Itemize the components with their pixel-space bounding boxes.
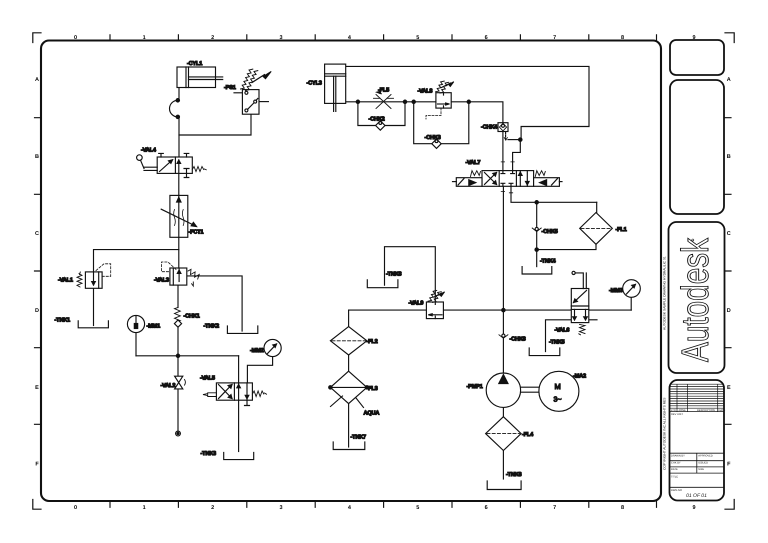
wire CYL1 to rotary joint	[178, 88, 180, 101]
check valve CHK6	[499, 334, 508, 338]
svg-text:-VAL7: -VAL7	[466, 160, 481, 166]
tank TNK8	[487, 481, 521, 490]
svg-text:M: M	[555, 382, 561, 391]
corner mark top-right	[725, 33, 734, 43]
node	[535, 248, 538, 251]
check valve CHK5	[532, 227, 541, 231]
wire FL1 return	[537, 244, 596, 249]
node	[535, 201, 538, 204]
svg-text:TITLE: TITLE	[671, 475, 678, 478]
valve VAL9	[426, 302, 443, 319]
svg-text:-FL4: -FL4	[522, 432, 534, 438]
svg-text:-VAL8: -VAL8	[418, 89, 433, 95]
wire PS1 branch	[179, 114, 251, 135]
spring arrow VAL9	[428, 291, 445, 303]
node	[176, 115, 179, 118]
lever VAL4	[137, 155, 158, 171]
valve VAL5	[216, 383, 252, 400]
tank TNK5	[529, 348, 560, 356]
wire VAL7 P to pump	[502, 186, 504, 373]
tank TNK3	[224, 453, 254, 460]
wire FL2 to FL3	[348, 355, 350, 371]
filter FL2	[330, 327, 367, 355]
svg-text:-CYL1: -CYL1	[187, 61, 202, 67]
wire VAL1 to TNK1	[93, 288, 95, 325]
svg-text:ZONE: ZONE	[679, 409, 686, 412]
wire VAL5 to TNK3	[238, 400, 240, 451]
spring right VAL7	[535, 171, 545, 177]
svg-text:SIZE: SIZE	[698, 468, 704, 471]
svg-text:-TNK1: -TNK1	[55, 318, 71, 324]
wire MM2 to VAL5	[247, 357, 272, 383]
svg-text:-TNK6: -TNK6	[386, 272, 402, 278]
coupling shaft	[521, 387, 539, 392]
svg-text:-MA2: -MA2	[573, 374, 586, 380]
svg-text:-VAL5: -VAL5	[200, 376, 215, 382]
revision table header text	[671, 409, 725, 416]
pump PMP1	[486, 373, 520, 407]
pilot dashes VAL8	[426, 108, 441, 119]
VAL5 blocked port	[245, 400, 250, 405]
spring left VAL7	[471, 171, 481, 177]
relief valve VAL1	[85, 272, 102, 288]
node	[356, 100, 359, 103]
svg-text:D: D	[35, 308, 39, 314]
wire FL3 to TNK7	[348, 404, 350, 447]
svg-text:8: 8	[621, 35, 624, 41]
cylinder CYL3	[325, 64, 346, 111]
svg-text:AUTODESK SAMPLE DRAWING HYDRAU: AUTODESK SAMPLE DRAWING HYDRAULIC 01	[663, 256, 667, 330]
flow control FCT1	[161, 195, 196, 237]
filter FL1	[580, 213, 613, 245]
wire CHK4 to VAL7 port A	[502, 132, 504, 170]
svg-text:DRAWN BY: DRAWN BY	[671, 454, 685, 457]
svg-text:AQUA: AQUA	[364, 411, 380, 417]
svg-text:-FL3: -FL3	[367, 386, 378, 392]
grid numbers bottom	[74, 505, 696, 511]
right column ticks	[725, 118, 732, 425]
check valve CHK1	[174, 308, 181, 328]
adjust arrow PS1	[241, 69, 272, 90]
RIGHT COLUMN	[669, 40, 725, 501]
wire pilot node link	[508, 139, 522, 141]
svg-text:B: B	[35, 154, 39, 160]
svg-text:-TNK7: -TNK7	[351, 435, 367, 441]
title block box	[670, 380, 725, 501]
svg-text:COPYRIGHT AUTODESK INC ALL RIG: COPYRIGHT AUTODESK INC ALL RIGHTS RES	[663, 397, 667, 470]
pilot dashes CHK4	[505, 133, 507, 140]
svg-text:-FL2: -FL2	[367, 339, 378, 345]
valve VAL4	[157, 153, 192, 177]
svg-text:APPROVED: APPROVED	[698, 454, 713, 457]
svg-text:-CHK4: -CHK4	[481, 125, 498, 131]
node	[502, 308, 505, 311]
spring VAL3	[188, 269, 199, 286]
svg-text:1: 1	[143, 35, 146, 41]
svg-text:-CHK6: -CHK6	[510, 337, 526, 343]
wire branch to VAL1	[94, 250, 179, 272]
spring VAL6	[579, 324, 585, 334]
svg-text:-FL5: -FL5	[378, 88, 389, 94]
tank TNK2	[227, 326, 257, 333]
wire CYL3 head line long	[346, 66, 589, 139]
wire bus to VAL5	[238, 356, 240, 383]
copyright micro text vertical	[663, 256, 667, 470]
wire MM3 riser	[630, 297, 632, 310]
relief valve VAL3	[170, 268, 187, 285]
wire bypass branch 1	[358, 102, 405, 126]
svg-text:A: A	[727, 77, 731, 83]
svg-text:DESCRIPTION: DESCRIPTION	[697, 409, 715, 412]
solenoid right VAL7	[534, 178, 562, 187]
svg-text:-VAL9: -VAL9	[409, 301, 424, 307]
svg-text:-CHK3: -CHK3	[425, 135, 441, 141]
node	[412, 100, 415, 103]
wire MM1 drop	[135, 333, 137, 356]
wire VAL3 to CHK1	[177, 285, 179, 307]
svg-text:A: A	[35, 77, 39, 83]
title box 1	[670, 40, 724, 75]
gauge MM2	[264, 339, 281, 356]
svg-text:-VAL4: -VAL4	[141, 148, 157, 154]
wire bypass branch 2	[414, 102, 469, 144]
spring VAL4	[192, 167, 206, 172]
spring VAL1	[77, 272, 82, 287]
svg-text:2: 2	[211, 505, 214, 511]
svg-text:-TNK4: -TNK4	[540, 259, 557, 265]
wire CHK5 drop	[536, 202, 538, 249]
svg-text:-CHK5: -CHK5	[542, 229, 558, 235]
wire FL4 to TNK8	[502, 451, 504, 480]
svg-text:6: 6	[485, 505, 488, 511]
main border	[41, 41, 661, 502]
wire to TNK4	[536, 250, 538, 267]
wire pressure header	[349, 309, 632, 311]
grid numbers top	[74, 35, 696, 41]
title box 2	[670, 80, 724, 214]
pilot arrow	[504, 138, 507, 141]
svg-text:-MM3: -MM3	[609, 288, 623, 294]
svg-text:-MM1: -MM1	[147, 324, 161, 330]
shutoff valve VAL2	[175, 376, 186, 389]
svg-text:E: E	[35, 385, 39, 391]
svg-text:0: 0	[74, 505, 77, 511]
corner mark bottom-right	[725, 500, 734, 510]
svg-text:LTR: LTR	[671, 409, 676, 412]
wire FL2 riser	[348, 310, 350, 327]
VAL5 push actuator	[203, 393, 216, 397]
VAL6 stem	[575, 273, 586, 289]
svg-text:D: D	[727, 308, 731, 314]
wire VAL7 T to tank line	[511, 186, 597, 202]
rotary joint arc	[170, 100, 178, 117]
wire VAL4 to FCT1	[178, 173, 180, 195]
pressure switch PS1	[242, 90, 259, 115]
node dead end	[176, 431, 181, 436]
svg-text:-VAL6: -VAL6	[555, 328, 570, 334]
spring VAL5	[252, 391, 266, 397]
svg-text:-MM2: -MM2	[250, 348, 264, 354]
svg-text:-VAL1: -VAL1	[58, 278, 73, 284]
svg-text:-TNK8: -TNK8	[506, 472, 522, 478]
svg-text:-FL1: -FL1	[616, 227, 627, 233]
wire VAL6 to TNK5	[546, 320, 572, 352]
wire FCT1 to VAL3	[178, 237, 180, 268]
motor MA2	[539, 371, 579, 411]
svg-text:7: 7	[553, 35, 556, 41]
svg-text:8: 8	[621, 505, 624, 511]
svg-text:DATE: DATE	[671, 468, 678, 471]
wire PS1 left lead	[234, 92, 242, 94]
svg-text:-CHK2: -CHK2	[369, 117, 385, 123]
svg-text:E: E	[727, 385, 731, 391]
svg-text:5: 5	[416, 505, 419, 511]
reducing valve VAL8	[436, 93, 451, 108]
svg-text:-FCT1: -FCT1	[189, 230, 204, 236]
gauge MM1	[127, 315, 144, 332]
solenoid left VAL7	[453, 178, 483, 187]
svg-text:DWG NO: DWG NO	[671, 489, 682, 492]
spring arrow VAL8	[436, 81, 454, 93]
svg-text:3: 3	[279, 35, 282, 41]
wire CYL3 rod line	[346, 102, 503, 123]
flow meter FL5	[374, 91, 394, 109]
valve VAL6	[571, 289, 589, 323]
wire FL1 riser	[596, 202, 598, 212]
svg-text:CHK BY: CHK BY	[671, 462, 681, 465]
top ticks	[110, 35, 657, 41]
gauge MM3	[623, 280, 641, 298]
svg-text:-CHK1: -CHK1	[184, 314, 200, 320]
Autodesk logo text	[675, 237, 717, 362]
tank TNK1	[78, 321, 108, 328]
port stubs VAL7	[501, 162, 514, 193]
left ticks	[35, 118, 42, 425]
svg-text:C: C	[727, 231, 731, 237]
check valve CHK3	[432, 139, 441, 148]
tank TNK4	[522, 267, 552, 274]
grid letters left	[35, 77, 39, 468]
check valve CHK2	[376, 121, 385, 130]
grid letters right	[727, 77, 731, 468]
svg-text:-PMP1: -PMP1	[467, 384, 483, 390]
svg-text:-PS1: -PS1	[224, 85, 236, 91]
svg-text:3~: 3~	[554, 397, 562, 404]
svg-text:REV HIST: REV HIST	[671, 413, 683, 416]
svg-text:Autodesk: Autodesk	[675, 237, 717, 362]
svg-text:C: C	[35, 231, 39, 237]
node	[176, 354, 179, 357]
wire VAL3 to TNK2	[187, 276, 242, 331]
wire pump to FL4	[502, 407, 504, 417]
svg-text:2: 2	[211, 35, 214, 41]
node	[519, 138, 522, 141]
check valve CHK4	[498, 123, 508, 132]
svg-text:5: 5	[416, 35, 419, 41]
svg-text:1: 1	[143, 505, 146, 511]
pilot dashes VAL3	[162, 262, 177, 272]
svg-text:9: 9	[692, 505, 695, 511]
node	[467, 100, 470, 103]
svg-text:ISSUED: ISSUED	[698, 462, 708, 465]
svg-text:3: 3	[279, 505, 282, 511]
svg-text:6: 6	[485, 35, 488, 41]
title block field labels	[671, 454, 713, 491]
svg-text:-TNK2: -TNK2	[204, 324, 220, 330]
wire CHK1 to bus node	[177, 327, 179, 356]
revision table	[670, 384, 724, 411]
svg-text:-VAL3: -VAL3	[154, 278, 169, 284]
cylinder CYL1	[177, 67, 223, 88]
svg-text:-CYL3: -CYL3	[307, 81, 322, 87]
wire jog to VAL7 port B	[513, 140, 521, 170]
svg-text:0: 0	[74, 35, 77, 41]
svg-text:B: B	[727, 154, 731, 160]
corner mark bottom-left	[33, 500, 41, 510]
bottom ticks	[110, 501, 657, 507]
node	[176, 99, 179, 102]
title block field lines	[670, 453, 725, 487]
svg-text:DATE: DATE	[719, 409, 726, 412]
valve VAL7	[482, 171, 534, 187]
filter FL4	[486, 417, 521, 451]
tank TNK7	[333, 442, 365, 450]
wire PS1 right lead	[259, 101, 268, 103]
svg-text:-TNK3: -TNK3	[201, 451, 217, 457]
svg-text:7: 7	[553, 505, 556, 511]
wire VAL2 to dead end	[177, 389, 179, 433]
wire pressure bus	[136, 355, 239, 357]
wire VAL6 right stub	[589, 319, 597, 321]
node	[403, 100, 406, 103]
VAL6 stem knob	[572, 271, 575, 274]
filter FL3	[329, 371, 369, 407]
tank TNK6	[367, 280, 398, 288]
svg-text:01 OF 01: 01 OF 01	[686, 493, 707, 499]
Autodesk logo box	[669, 222, 725, 373]
wire VAL9 loop to TNK6	[385, 247, 436, 302]
wire joint to VAL4	[178, 117, 180, 157]
corner mark top-left	[33, 33, 41, 43]
svg-text:-VAL2: -VAL2	[161, 383, 176, 389]
svg-text:-TNK5: -TNK5	[549, 340, 565, 346]
pilot dashes VAL1	[96, 264, 111, 277]
wire bus to VAL2	[177, 356, 179, 376]
